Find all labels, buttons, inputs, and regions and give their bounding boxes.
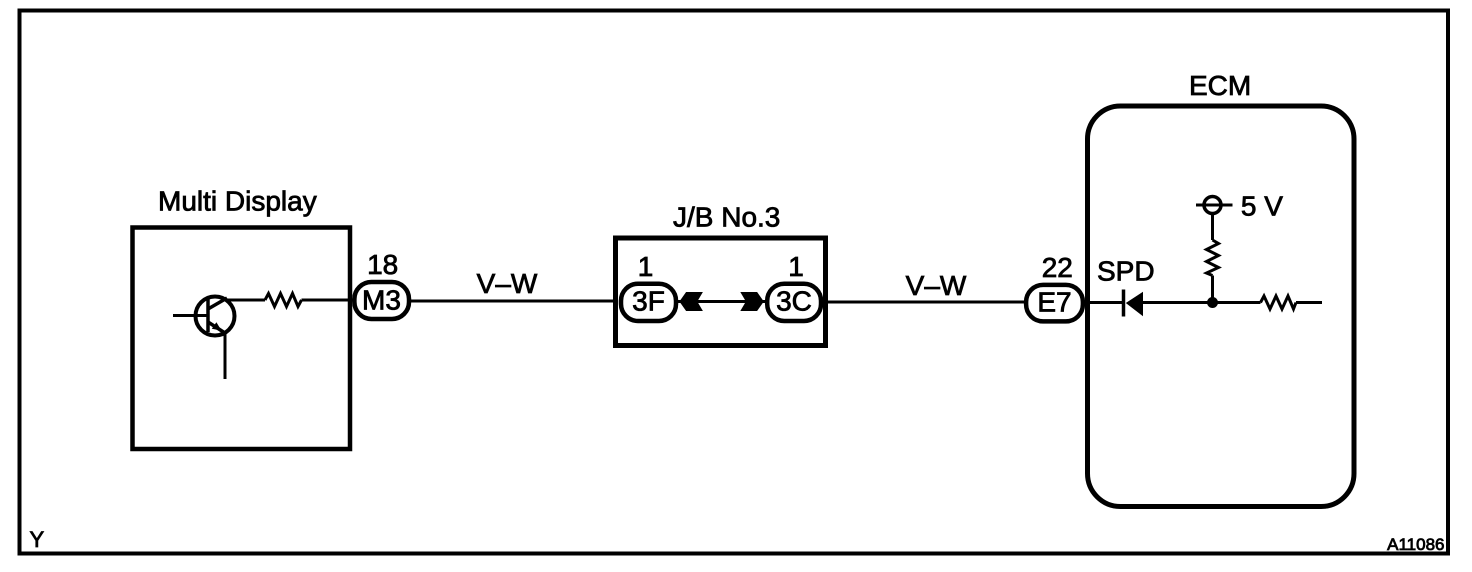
svg-text:V–W: V–W	[906, 270, 967, 301]
svg-text:ECM: ECM	[1189, 70, 1251, 101]
svg-text:Multi Display: Multi Display	[158, 186, 317, 217]
svg-text:1: 1	[638, 251, 654, 282]
svg-text:Y: Y	[30, 527, 45, 552]
svg-text:3C: 3C	[776, 286, 812, 317]
svg-text:SPD: SPD	[1097, 256, 1155, 287]
svg-text:5 V: 5 V	[1241, 191, 1283, 222]
svg-text:V–W: V–W	[477, 268, 538, 299]
svg-text:3F: 3F	[632, 286, 665, 317]
svg-text:M3: M3	[362, 285, 401, 316]
svg-text:22: 22	[1042, 252, 1073, 283]
svg-text:1: 1	[788, 251, 804, 282]
svg-text:A11086: A11086	[1387, 535, 1444, 554]
svg-text:J/B No.3: J/B No.3	[673, 202, 780, 233]
svg-text:18: 18	[367, 249, 398, 280]
svg-text:E7: E7	[1037, 286, 1071, 317]
